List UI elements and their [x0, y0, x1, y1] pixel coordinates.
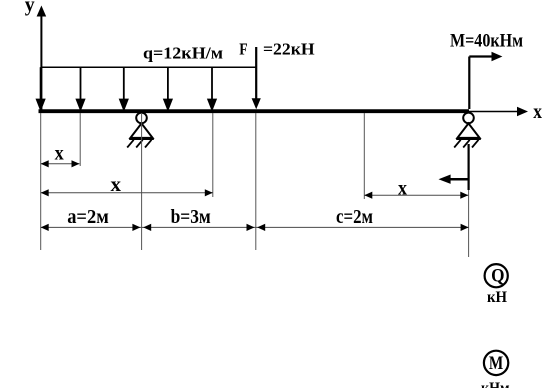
dimension x (medium): [41, 189, 213, 196]
moment M couple: [439, 52, 503, 190]
roller support B (right): [454, 113, 481, 148]
distributed load q top line: [41, 66, 256, 68]
svg-text:x: x: [398, 177, 407, 199]
x-axis: [469, 107, 528, 117]
svg-text:=22кН: =22кН: [263, 40, 315, 59]
svg-text:x: x: [533, 101, 542, 123]
dimension x (small, left): [41, 160, 80, 167]
svg-text:M=40кНм: M=40кНм: [450, 31, 523, 51]
svg-text:M: M: [489, 354, 503, 374]
extension lines: [41, 113, 469, 257]
svg-text:x: x: [111, 174, 122, 196]
svg-text:F: F: [239, 40, 247, 59]
svg-text:y: y: [25, 0, 35, 16]
force F arrow: [252, 47, 261, 109]
svg-text:кН: кН: [487, 289, 507, 306]
svg-text:b=3м: b=3м: [171, 207, 211, 228]
pin support A (left): [127, 113, 154, 148]
svg-text:q=12кН/м: q=12кН/м: [143, 44, 223, 63]
y-axis: [37, 6, 47, 111]
beam: [39, 109, 470, 113]
dimension line a/b/c: [41, 224, 469, 231]
dimension x (right): [364, 192, 468, 199]
svg-text:Q: Q: [491, 266, 504, 286]
distributed load arrows: [37, 67, 216, 109]
svg-text:c=2м: c=2м: [336, 207, 373, 228]
Q diagram symbol: [485, 264, 508, 287]
svg-text:x: x: [55, 142, 64, 164]
M diagram symbol: [484, 351, 508, 375]
svg-text:кНм: кНм: [481, 380, 510, 388]
svg-text:a=2м: a=2м: [67, 207, 109, 228]
